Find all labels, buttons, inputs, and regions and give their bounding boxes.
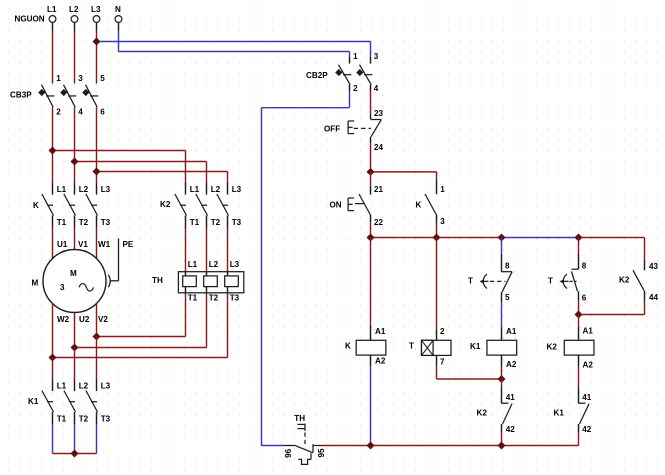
svg-text:L2: L2 — [211, 185, 221, 194]
CB3P pole 3 pins 5-6 — [82, 74, 105, 117]
svg-text:2: 2 — [440, 327, 445, 336]
svg-text:M: M — [70, 269, 77, 278]
wire K1 coil A2 to node — [501, 355, 503, 379]
svg-text:U2: U2 — [79, 315, 90, 324]
svg-text:3: 3 — [60, 283, 65, 292]
node feeder tap L1 — [49, 147, 57, 155]
svg-text:N: N — [115, 5, 121, 14]
wire timer 5 to K1 coil (blue) — [501, 292, 503, 340]
interlock contact K1 41-42 — [578, 393, 592, 434]
wire W2 to TH T3 — [56, 293, 228, 358]
svg-text:3: 3 — [78, 74, 83, 83]
node bottom rail at K1 branch — [498, 442, 506, 450]
svg-text:42: 42 — [506, 425, 516, 434]
svg-text:23: 23 — [374, 109, 384, 118]
svg-text:T: T — [468, 277, 473, 286]
motor label M — [32, 279, 39, 288]
timer coil T pins 2-7 — [409, 327, 451, 367]
auxiliary contact K 1-3 — [425, 185, 445, 226]
svg-text:T3: T3 — [101, 415, 111, 424]
wire V2 node down to K1 pole3 — [96, 337, 98, 392]
svg-text:K: K — [345, 342, 351, 351]
pushbutton OFF label — [324, 125, 340, 134]
svg-text:A1: A1 — [375, 327, 386, 336]
svg-text:CB2P: CB2P — [306, 71, 328, 80]
wire K1 T3 down (blue) — [96, 412, 98, 454]
circuit breaker CB2P label — [306, 71, 328, 80]
node feeder tap L2 — [71, 158, 79, 166]
wire K1 interlock 42 to bottom rail — [578, 424, 580, 446]
node V2 junction — [93, 333, 101, 341]
svg-text:95: 95 — [317, 448, 326, 458]
svg-text:T2: T2 — [209, 294, 219, 303]
svg-text:M: M — [32, 279, 39, 288]
svg-text:L3: L3 — [91, 5, 101, 14]
svg-text:6: 6 — [582, 294, 587, 303]
wire K2 T1 to TH L1 — [185, 216, 187, 272]
wire feeder L3 to K2 pole3 — [100, 172, 228, 195]
wire control rail red left — [371, 237, 502, 239]
node rail at K column — [367, 234, 375, 242]
svg-text:PE: PE — [123, 240, 134, 249]
TH heater element 3 L3-T3 — [225, 260, 240, 303]
wire L3 tap to CB2P pin3 (top blue run) — [100, 42, 371, 58]
timer actuator T label (K1 branch) — [468, 277, 473, 286]
svg-text:K1: K1 — [554, 409, 565, 418]
label W2 — [57, 315, 70, 324]
svg-text:K2: K2 — [160, 200, 171, 209]
auxiliary contact K2 43-44 — [633, 262, 659, 302]
svg-text:W2: W2 — [57, 315, 70, 324]
svg-text:L1: L1 — [190, 185, 200, 194]
wire node to ON 21 — [370, 172, 372, 195]
wire star point bar — [53, 453, 97, 455]
svg-text:A1: A1 — [583, 327, 594, 336]
svg-text:3: 3 — [440, 217, 445, 226]
svg-text:V2: V2 — [98, 315, 108, 324]
svg-text:T2: T2 — [211, 218, 221, 227]
svg-text:T3: T3 — [101, 218, 111, 227]
wire OFF 24 to node — [370, 137, 372, 172]
thermal trip contact TH 95-96 — [284, 424, 326, 465]
auxiliary contact K label — [416, 201, 422, 210]
svg-text:T1: T1 — [57, 218, 67, 227]
thermal relay TH label — [152, 276, 163, 285]
wire ON 22 to rail — [370, 215, 372, 238]
svg-text:T2: T2 — [79, 218, 89, 227]
svg-text:L2: L2 — [79, 382, 89, 391]
contactor K2 label — [160, 200, 171, 209]
CB2P pole 2 pins 3-4 — [356, 52, 379, 93]
wire K2 T3 to TH L3 — [227, 216, 229, 272]
wire L1 terminal to CB3P pin1 — [52, 22, 54, 83]
svg-text:L1: L1 — [57, 185, 67, 194]
timer actuator T label (K2 branch) — [548, 277, 553, 286]
wire K1 T1 down (blue) — [52, 412, 54, 454]
wire K2 interlock 42 to bottom rail — [501, 424, 503, 446]
svg-text:K2: K2 — [477, 409, 488, 418]
svg-text:CB3P: CB3P — [10, 91, 32, 100]
terminal L1 — [47, 5, 57, 22]
wire rail to T coil — [436, 238, 438, 341]
node feeder tap L3 — [93, 168, 101, 176]
PE earth connection — [108, 239, 134, 288]
svg-text:A2: A2 — [506, 360, 517, 369]
svg-text:41: 41 — [506, 393, 516, 402]
wire control rail red right — [579, 237, 645, 239]
wire motor U2 down — [74, 313, 76, 348]
contactor K label — [33, 201, 39, 210]
auxiliary contact K2 label — [619, 276, 630, 285]
contactor K pole 1 L1-T1 — [42, 185, 67, 227]
wire K T3 to motor W1 — [96, 216, 98, 259]
wire T coil 7 to K1 node — [437, 355, 502, 379]
TH heater element 2 L2-T2 — [204, 260, 219, 303]
wire K1 T2 down (blue) — [74, 412, 76, 454]
svg-text:V1: V1 — [78, 240, 88, 249]
contactor K2 pole 2 L2-T2 — [196, 185, 221, 227]
wire CB3P pin2 down to K L1 — [52, 107, 54, 194]
wire N to CB2P pin1 (blue run) — [119, 22, 350, 57]
svg-text:44: 44 — [649, 293, 659, 302]
svg-text:OFF: OFF — [324, 125, 340, 134]
svg-text:41: 41 — [582, 393, 592, 402]
wire K T2 to motor V1 — [74, 216, 76, 250]
svg-text:1: 1 — [56, 74, 61, 83]
svg-text:T: T — [548, 277, 553, 286]
wire node to K2 interlock 41 — [501, 379, 503, 403]
wire rail to K coil — [370, 238, 372, 341]
timer NC contact 8-6 — [560, 262, 587, 303]
label V1 — [78, 240, 88, 249]
svg-text:ON: ON — [330, 201, 342, 210]
wire node to K aux pin1 — [374, 172, 437, 194]
wire K2 aux 44 to node — [582, 291, 645, 315]
coil K1 — [470, 327, 517, 369]
svg-text:6: 6 — [100, 108, 105, 117]
wire U2 node down to K1 pole2 — [74, 348, 76, 392]
contactor K1 pole 2 L2-T2 — [64, 382, 89, 424]
svg-text:T1: T1 — [190, 218, 200, 227]
svg-text:5: 5 — [100, 74, 105, 83]
wire motor V2 down — [96, 303, 98, 336]
wire feeder L2 to K2 pole2 — [78, 162, 207, 195]
svg-text:L3: L3 — [101, 185, 111, 194]
pushbutton ON label — [330, 201, 342, 210]
svg-text:5: 5 — [505, 293, 510, 302]
contactor K1 pole 3 L3-T3 — [86, 382, 111, 424]
svg-text:L2: L2 — [69, 5, 79, 14]
svg-text:8: 8 — [505, 262, 510, 271]
node rail at K2 column — [575, 234, 583, 242]
svg-text:K2: K2 — [619, 276, 630, 285]
node U2 junction — [71, 344, 79, 352]
wire U2 to TH T2 — [78, 293, 207, 348]
contactor K2 pole 3 L3-T3 — [217, 185, 242, 227]
svg-text:K: K — [416, 201, 422, 210]
node K2 branch junction — [575, 311, 583, 319]
wire rail to timer NO pin8 — [501, 238, 503, 272]
svg-text:22: 22 — [374, 218, 384, 227]
wire feeder L1 to K2 pole1 — [56, 151, 186, 195]
node rail at K1 column — [498, 234, 506, 242]
circuit breaker CB3P label — [10, 91, 32, 100]
svg-text:TH: TH — [152, 276, 163, 285]
svg-text:NGUON: NGUON — [15, 14, 45, 23]
svg-text:7: 7 — [440, 358, 445, 367]
contactor K1 pole 1 L1-T1 — [42, 382, 67, 424]
svg-text:L1: L1 — [57, 382, 67, 391]
wire L3 terminal to CB3P pin5 — [96, 22, 98, 83]
wire K T1 to motor U1 — [52, 216, 54, 259]
svg-text:43: 43 — [649, 262, 659, 271]
svg-text:L1: L1 — [47, 5, 57, 14]
coil K2 — [547, 327, 594, 370]
node L3 tap junction — [93, 38, 101, 46]
wire rail to timer NC pin8 — [578, 238, 580, 270]
svg-text:L3: L3 — [230, 260, 240, 269]
svg-text:L3: L3 — [232, 185, 242, 194]
svg-text:L3: L3 — [101, 382, 111, 391]
wire K2 coil A2 down — [578, 355, 580, 403]
svg-text:L2: L2 — [79, 185, 89, 194]
label W1 — [98, 240, 111, 249]
CB2P pole 1 pins 1-2 — [335, 52, 358, 93]
terminal L2 — [69, 5, 79, 22]
motor M 3~ circle — [43, 250, 106, 313]
svg-text:K2: K2 — [547, 343, 558, 352]
wire control rail blue middle — [502, 237, 579, 239]
thermal relay TH box — [178, 272, 243, 293]
svg-text:U1: U1 — [57, 240, 68, 249]
node OFF/ON junction — [367, 168, 375, 176]
thermal contact TH label — [294, 414, 305, 423]
wire node to K2 coil — [578, 315, 580, 341]
svg-text:L1: L1 — [188, 260, 198, 269]
wire CB3P pin4 down to K L2 — [74, 107, 76, 194]
wire timer 6 to K2 node — [578, 291, 580, 314]
svg-text:T3: T3 — [232, 218, 242, 227]
label V2 — [98, 315, 108, 324]
CB3P pole 1 pins 1-2 — [38, 74, 61, 117]
svg-text:8: 8 — [582, 262, 587, 271]
terminal N — [115, 5, 122, 22]
wire V2 to TH T1 — [100, 293, 186, 337]
svg-text:1: 1 — [353, 52, 358, 61]
wire CB2P pin4 down to OFF — [370, 85, 372, 119]
svg-text:A2: A2 — [375, 357, 386, 366]
interlock K1 label — [554, 409, 565, 418]
interlock contact K2 41-42 — [501, 393, 515, 434]
node star point junction — [71, 450, 79, 458]
svg-text:T3: T3 — [230, 294, 240, 303]
svg-text:T1: T1 — [57, 415, 67, 424]
timer NO contact 8-5 — [480, 262, 513, 303]
svg-text:K: K — [33, 201, 39, 210]
node W2 junction — [49, 354, 57, 362]
contactor K pole 3 L3-T3 — [86, 185, 111, 227]
contactor K1 label — [28, 397, 39, 406]
svg-text:3: 3 — [374, 52, 379, 61]
svg-text:96: 96 — [284, 448, 293, 458]
label U1 — [57, 240, 68, 249]
svg-text:42: 42 — [582, 425, 592, 434]
pushbutton OFF contact 23-24 — [348, 109, 383, 152]
svg-text:1: 1 — [440, 185, 445, 194]
svg-text:4: 4 — [374, 84, 379, 93]
label U2 — [79, 315, 90, 324]
wire motor W2 down — [52, 303, 54, 357]
CB3P pole 2 pins 3-4 — [60, 74, 83, 117]
svg-text:24: 24 — [374, 143, 384, 152]
node bottom rail at K coil — [367, 442, 375, 450]
TH heater element 1 L1-T1 — [183, 260, 198, 303]
node rail at T column — [433, 234, 441, 242]
pushbutton ON contact 21-22 — [348, 185, 383, 227]
wire bottom rail blue from CB2P — [262, 445, 285, 447]
wire bottom rail red — [322, 445, 579, 447]
contactor K pole 2 L2-T2 — [64, 185, 89, 227]
svg-text:W1: W1 — [98, 240, 111, 249]
svg-text:L2: L2 — [209, 260, 219, 269]
wire K aux 3 to rail — [436, 215, 438, 238]
svg-text:K1: K1 — [470, 342, 481, 351]
svg-text:T: T — [409, 342, 414, 351]
svg-text:21: 21 — [374, 185, 384, 194]
node T/K1 junction — [498, 375, 506, 383]
svg-text:TH: TH — [294, 414, 305, 423]
svg-text:A2: A2 — [583, 361, 594, 370]
wire W2 node down to K1 pole1 — [52, 358, 54, 392]
svg-text:T2: T2 — [79, 415, 89, 424]
wire CB3P pin6 down to K L3 — [96, 107, 98, 194]
wire K2 T2 to TH L2 — [206, 216, 208, 272]
wire CB2P pin2 to neutral rail (blue) — [262, 85, 350, 446]
svg-text:A1: A1 — [506, 327, 517, 336]
coil K — [345, 327, 386, 366]
wire L2 terminal to CB3P pin3 — [74, 22, 76, 83]
interlock K2 label — [477, 409, 488, 418]
wire K coil A2 to bottom rail (blue) — [370, 355, 372, 445]
svg-text:T1: T1 — [188, 294, 198, 303]
contactor K2 pole 1 L1-T1 — [175, 185, 200, 227]
svg-text:2: 2 — [353, 84, 358, 93]
svg-text:4: 4 — [78, 108, 83, 117]
svg-text:K1: K1 — [28, 397, 39, 406]
wire rail corner to K2 aux 43 — [644, 238, 646, 271]
label NGUON (supply) — [15, 14, 45, 23]
terminal L3 — [91, 5, 101, 22]
svg-text:2: 2 — [56, 108, 61, 117]
